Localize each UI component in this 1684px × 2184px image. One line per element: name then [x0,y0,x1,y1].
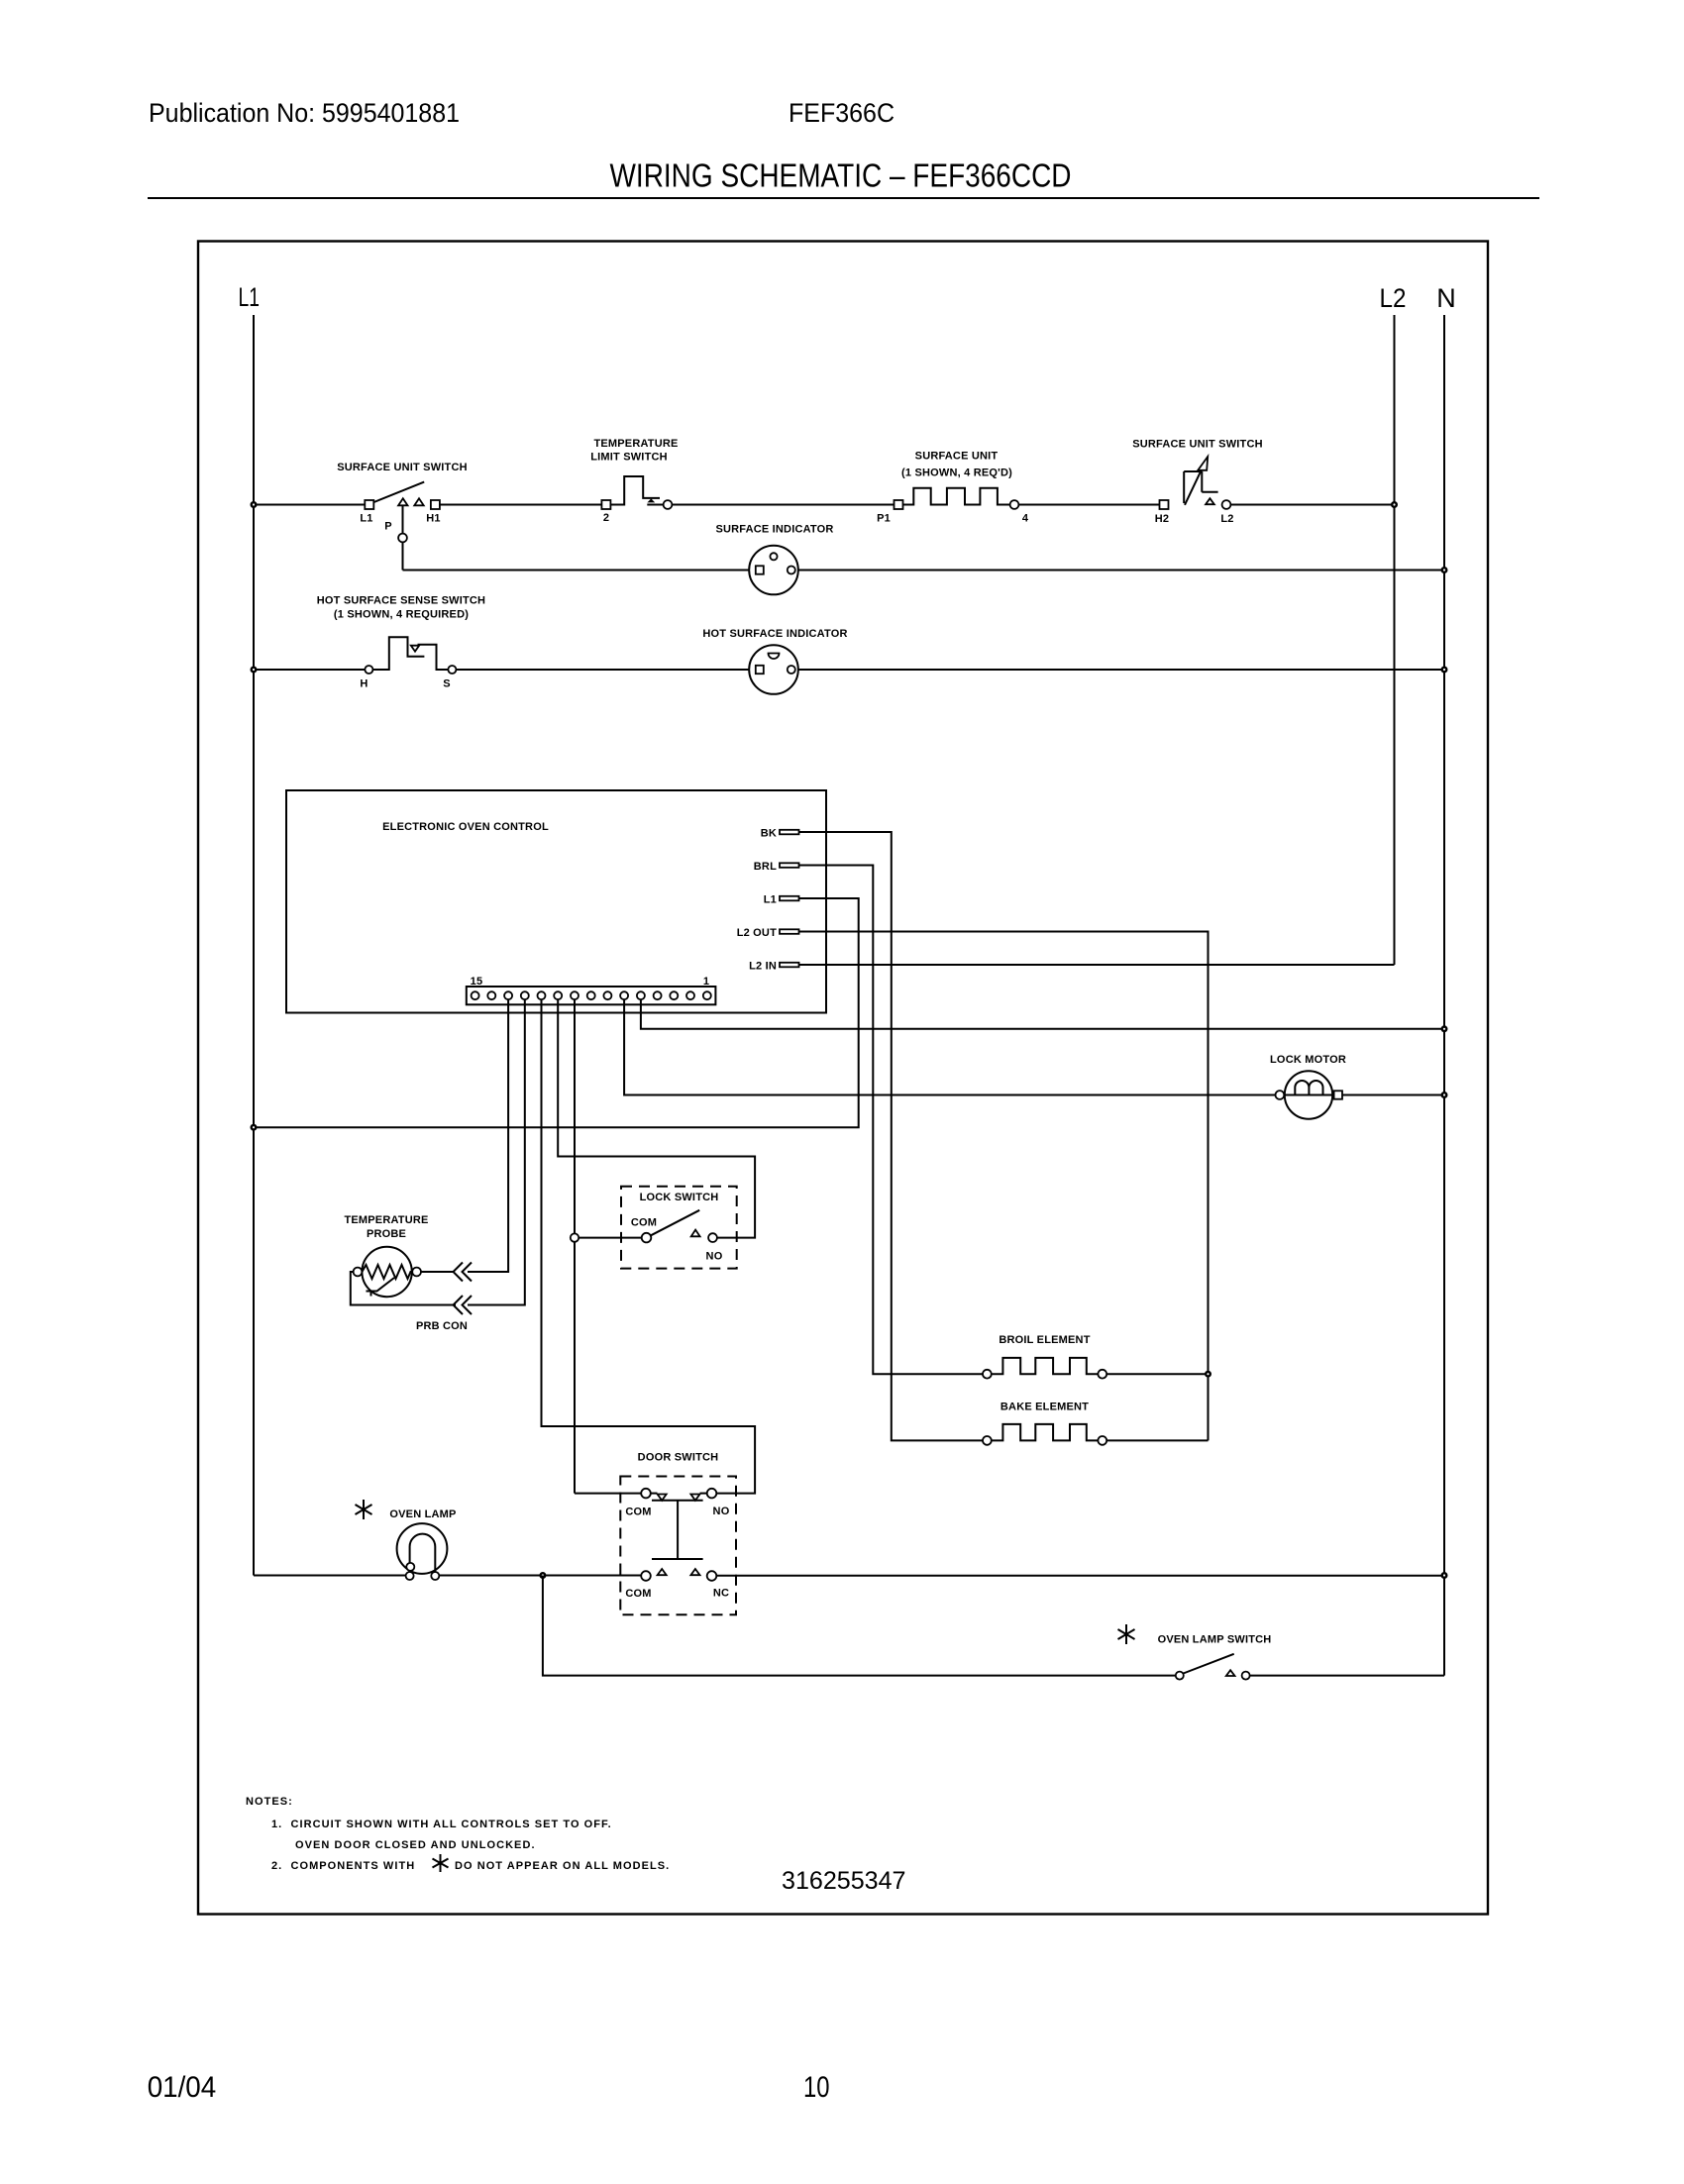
lock switch S3 dashed box [621,1187,737,1269]
svg-text:L2 OUT: L2 OUT [737,927,777,939]
wire hot surface sense switch to hot surface indicator [456,669,749,671]
oven lamp asterisk [356,1500,372,1519]
svg-text:10: 10 [803,2071,830,2104]
wire BK pin to bake element [799,832,984,1440]
wire L1 pin down to L1 bus tap [254,898,859,1127]
wire temperature limit switch to surface unit [672,504,894,506]
svg-text:N: N [1436,283,1456,313]
svg-text:BRL: BRL [754,861,777,873]
svg-text:BAKE ELEMENT: BAKE ELEMENT [1000,1402,1089,1413]
svg-text:PROBE: PROBE [367,1228,406,1240]
svg-text:2. COMPONENTS WITH: 2. COMPONENTS WITH [271,1860,415,1872]
node junction L1 rung1 [251,501,258,508]
svg-text:NO: NO [706,1251,723,1263]
wire L1 bus to oven lamp rung [254,1575,406,1577]
svg-text:DO NOT APPEAR ON ALL MODELS.: DO NOT APPEAR ON ALL MODELS. [455,1860,670,1872]
svg-text:SURFACE UNIT SWITCH: SURFACE UNIT SWITCH [337,462,468,473]
door switch plunger [652,1501,703,1559]
wire BRL pin to broil element [799,866,984,1375]
wire oven lamp to door switch COM [439,1575,641,1577]
svg-text:HOT SURFACE INDICATOR: HOT SURFACE INDICATOR [702,628,847,640]
wire rung3 L1 to hot surface sense switch [254,669,365,671]
svg-text:BROIL ELEMENT: BROIL ELEMENT [999,1334,1090,1346]
lock switch [631,1192,723,1263]
wire L1 bus vertical [253,315,255,1576]
svg-text:1: 1 [703,976,709,988]
svg-text:SURFACE UNIT: SURFACE UNIT [915,451,999,463]
wire L2 OUT pin to elements bus [799,932,1209,1441]
svg-text:L2: L2 [1380,283,1407,313]
schematic border frame [198,242,1488,1915]
wire lock motor to N bus [1342,1094,1444,1096]
node junction N pin5 [1441,1025,1448,1032]
pin L2 IN [749,961,798,973]
svg-text:P1: P1 [877,513,891,525]
wire oven lamp switch to N bus [1250,1675,1444,1677]
notes block [246,1796,670,1872]
broil element [983,1334,1106,1379]
svg-text:BK: BK [761,828,777,840]
wire surface unit to surface unit switch 2 [1018,504,1159,506]
temperature limit switch [590,438,678,524]
hot surface sense switch [317,595,485,690]
connector arrow PRB lower [454,1296,473,1314]
wire pin5 to N bus [641,999,1444,1029]
hot surface indicator [702,628,847,694]
wire L2 IN pin to L2 bus [799,964,1395,966]
svg-text:NC: NC [713,1588,729,1600]
surface unit switch SW2 [1132,439,1263,526]
electronic oven control U1 box [286,790,826,1013]
svg-text:OVEN DOOR CLOSED AND UNLOCKED.: OVEN DOOR CLOSED AND UNLOCKED. [295,1839,536,1851]
wire branch to oven lamp switch [543,1576,1176,1676]
svg-text:FEF366C: FEF366C [789,98,895,128]
lock motor M1 [1270,1054,1346,1119]
node junction N lamp rung [1441,1572,1448,1579]
svg-text:L1: L1 [360,513,372,525]
surface indicator [715,524,833,595]
wire H1 to temperature limit switch [440,504,602,506]
svg-text:COM: COM [631,1217,657,1229]
surface unit heating element [877,451,1029,525]
wire pin13 to temperature probe upper [468,999,508,1272]
node junction N rung3 [1441,667,1448,674]
svg-text:OVEN LAMP: OVEN LAMP [389,1508,456,1520]
svg-text:(1 SHOWN, 4 REQUIRED): (1 SHOWN, 4 REQUIRED) [334,609,469,621]
node junction L1 tap [251,1124,258,1131]
wire door switch NC to N bus [716,1575,1444,1577]
node junction broil L2 OUT [1205,1371,1211,1378]
wire probe upper to arrow [421,1271,454,1273]
svg-text:SURFACE UNIT SWITCH: SURFACE UNIT SWITCH [1132,439,1263,451]
svg-text:2: 2 [603,512,609,524]
svg-text:H: H [360,678,368,690]
door switch S4 dashed box [620,1477,736,1615]
svg-text:L1: L1 [239,282,261,312]
svg-text:COM: COM [625,1507,651,1518]
svg-text:NOTES:: NOTES: [246,1796,293,1808]
svg-text:HOT SURFACE SENSE SWITCH: HOT SURFACE SENSE SWITCH [317,595,485,607]
wire hot surface indicator to N bus [798,669,1444,671]
svg-text:1. CIRCUIT SHOWN WITH ALL CON: 1. CIRCUIT SHOWN WITH ALL CONTROLS SET T… [271,1819,612,1830]
wire pin12 to temperature probe lower [468,999,525,1305]
wire pin9 to door switch COM [574,999,576,1494]
node junction N rung2 [1441,567,1448,573]
pin P terminal and branch wire [398,506,407,571]
svg-text:COM: COM [625,1588,651,1600]
svg-text:L1: L1 [764,894,777,906]
oven lamp switch [1158,1634,1272,1680]
svg-text:15: 15 [471,976,483,988]
svg-text:TEMPERATURE: TEMPERATURE [344,1214,428,1226]
svg-text:WIRING SCHEMATIC – FEF366CCD: WIRING SCHEMATIC – FEF366CCD [610,157,1072,194]
svg-text:LOCK SWITCH: LOCK SWITCH [640,1192,719,1203]
surface unit switch SW1 [337,462,468,533]
svg-text:Publication No: 5995401881: Publication No: 5995401881 [149,98,460,128]
pin L2 OUT [737,927,799,939]
svg-text:NO: NO [713,1506,730,1517]
svg-text:S: S [443,678,451,690]
wire surface indicator to N bus [798,570,1444,572]
connector strip P15-P1 [467,976,716,1004]
svg-text:SURFACE INDICATOR: SURFACE INDICATOR [715,524,833,536]
pin BK [761,828,799,840]
wire lock switch COM to pin9 wire [579,1237,642,1239]
node junction oven lamp switch branch [539,1572,546,1579]
oven lamp switch asterisk [1118,1624,1135,1644]
svg-text:P: P [384,521,392,533]
wire broil element to L2 OUT bus [1106,1373,1208,1375]
wire surface unit switch 2 to L2 bus [1230,504,1394,506]
wire rung1 L1 to surface unit switch [254,504,365,506]
note asterisk [433,1854,449,1872]
svg-text:H1: H1 [426,513,440,525]
svg-text:(1 SHOWN, 4 REQ'D): (1 SHOWN, 4 REQ'D) [901,468,1012,479]
pin BRL [754,861,799,873]
wire L2 bus vertical [1394,315,1396,965]
wire temperature probe left loop [351,1272,456,1305]
wire bake element to L2 OUT bus corner [1106,1439,1208,1441]
bake element [983,1402,1106,1445]
connector arrow PRB upper [454,1263,473,1282]
pin L1 [764,894,799,906]
wire pin9 to door COM top row [575,1493,641,1495]
node junction L2 rung1 [1391,501,1398,508]
svg-text:ELECTRONIC OVEN CONTROL: ELECTRONIC OVEN CONTROL [382,821,549,833]
svg-text:LOCK MOTOR: LOCK MOTOR [1270,1054,1346,1066]
svg-text:TEMPERATURE: TEMPERATURE [593,438,678,450]
wire N bus vertical [1443,315,1445,1676]
wire pin11 to door switch NO loop [542,999,756,1494]
svg-text:H2: H2 [1155,513,1169,525]
svg-text:316255347: 316255347 [782,1867,906,1895]
temperature probe RT1 [344,1214,428,1297]
svg-text:OVEN LAMP SWITCH: OVEN LAMP SWITCH [1158,1634,1272,1646]
svg-text:PRB CON: PRB CON [416,1320,468,1332]
wire rung2 P to surface indicator [403,570,750,572]
svg-text:4: 4 [1022,513,1029,525]
wire pin6 to lock motor [624,999,1275,1095]
svg-text:L2: L2 [1220,513,1233,525]
node terminal on pin9 wire [571,1233,579,1241]
node junction L1 rung3 [251,667,258,674]
svg-text:L2 IN: L2 IN [749,961,777,973]
node junction N lock motor [1441,1092,1448,1098]
door switch lower contact [625,1569,729,1600]
svg-text:DOOR SWITCH: DOOR SWITCH [638,1452,719,1464]
oven lamp [389,1508,456,1580]
wire pin10 to lock switch NO loop [558,999,755,1238]
title rule [148,197,1539,199]
door switch upper contact [625,1489,729,1518]
svg-text:LIMIT SWITCH: LIMIT SWITCH [590,452,668,464]
svg-text:01/04: 01/04 [148,2071,217,2104]
